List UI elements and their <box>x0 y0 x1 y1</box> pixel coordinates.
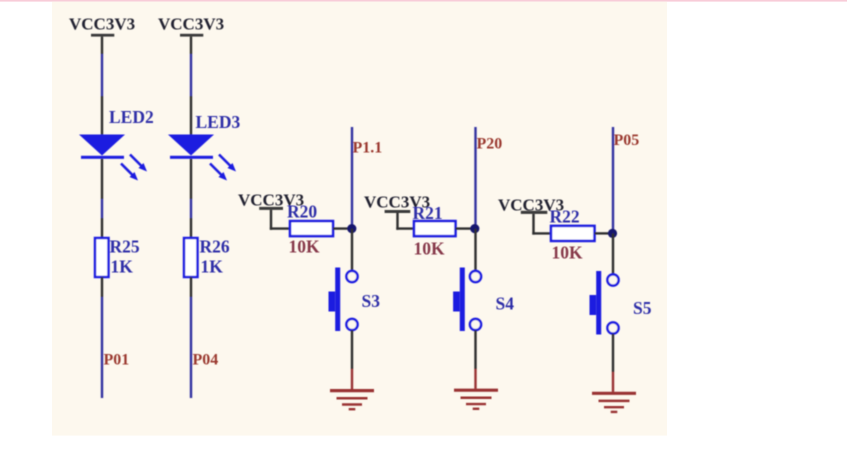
svg-text:S3: S3 <box>362 291 381 311</box>
resistor R22 <box>551 226 595 241</box>
node: R20 / P1.1 / S3 junction <box>347 224 356 233</box>
wire: S5 to ground <box>612 334 614 392</box>
wire: VCC to LED3 anode <box>190 37 192 135</box>
node: R22 / P05 / S5 junction <box>608 229 617 238</box>
ground (S5) <box>592 393 636 412</box>
switch S5 <box>590 271 619 335</box>
svg-text:10K: 10K <box>289 236 321 256</box>
svg-text:P01: P01 <box>104 351 130 368</box>
wire: LED3 cathode to R26 <box>190 159 192 238</box>
svg-text:S5: S5 <box>633 298 652 318</box>
ground (S3) <box>330 391 374 410</box>
svg-text:P04: P04 <box>193 351 219 368</box>
LED LED3 <box>168 135 236 181</box>
power VCC3V3 (R21 branch) <box>364 192 430 213</box>
wire: VCC stub to R20 <box>270 210 290 230</box>
svg-text:P1.1: P1.1 <box>353 140 383 157</box>
resistor R20 <box>290 221 333 236</box>
svg-text:R22: R22 <box>550 207 580 227</box>
svg-text:1K: 1K <box>111 256 134 276</box>
svg-text:10K: 10K <box>414 239 446 259</box>
svg-text:LED2: LED2 <box>109 107 154 127</box>
svg-text:R25: R25 <box>110 237 140 257</box>
wire: S4 to ground <box>474 330 476 389</box>
resistor R26 <box>184 238 198 277</box>
svg-text:10K: 10K <box>552 242 584 262</box>
wire: R21 to node <box>456 227 474 229</box>
svg-text:LED3: LED3 <box>196 112 241 132</box>
ground (S4) <box>454 390 498 409</box>
wire: node to S4 <box>474 229 476 271</box>
svg-text:VCC3V3: VCC3V3 <box>158 15 224 34</box>
switch S3 <box>329 268 358 332</box>
svg-text:R21: R21 <box>413 203 443 223</box>
wire: R26 to net P04 <box>190 277 192 398</box>
wire: node to S5 <box>612 233 614 274</box>
svg-text:VCC3V3: VCC3V3 <box>69 15 135 34</box>
svg-text:R20: R20 <box>287 201 317 221</box>
power VCC3V3 (LED2 branch) <box>69 15 135 37</box>
power VCC3V3 (LED3 branch) <box>158 15 224 37</box>
wire: node to S3 <box>351 229 353 271</box>
svg-text:1K: 1K <box>201 256 224 276</box>
resistor R25 <box>95 238 109 277</box>
svg-text:P20: P20 <box>477 135 503 152</box>
wire: R20 to node <box>333 227 350 229</box>
power VCC3V3 (R22 branch) <box>498 196 564 215</box>
switch S4 <box>453 268 481 332</box>
svg-text:P05: P05 <box>614 132 640 149</box>
power VCC3V3 (R20 branch) <box>238 190 304 210</box>
wire: R25 to net P01 <box>101 277 103 398</box>
resistor R21 <box>414 221 456 236</box>
svg-text:R26: R26 <box>200 237 230 257</box>
wire: LED2 cathode to R25 <box>101 159 103 238</box>
wire: VCC to LED2 anode <box>101 37 103 135</box>
wire: S3 to ground <box>351 330 353 389</box>
wire: net P1.1 vertical <box>351 127 353 229</box>
wire: VCC stub to R21 <box>396 213 414 230</box>
node: R21 / P20 / S4 junction <box>470 224 479 233</box>
wire: net P05 vertical <box>612 127 614 233</box>
wire: R22 to node <box>595 232 611 234</box>
wire: net P20 vertical <box>474 127 476 229</box>
wire: VCC stub to R22 <box>532 214 551 235</box>
svg-text:S4: S4 <box>496 293 515 313</box>
LED LED2 <box>79 135 147 181</box>
